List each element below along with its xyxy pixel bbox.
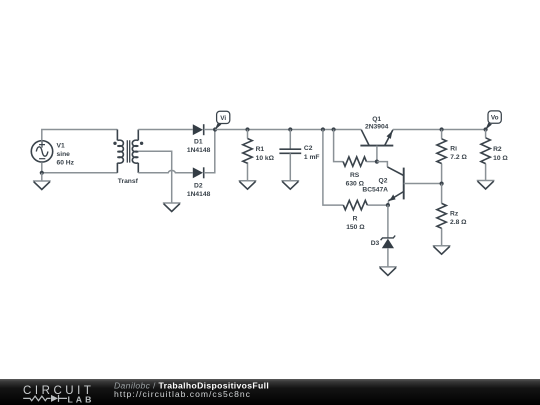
diode D1 — [193, 124, 204, 135]
svg-text:7.2 Ω: 7.2 Ω — [450, 154, 467, 161]
svg-text:RS: RS — [350, 172, 360, 179]
svg-text:D1: D1 — [194, 138, 203, 145]
ground under center tap — [163, 202, 181, 204]
wire V1 to ground — [41, 173, 43, 181]
logo diode — [51, 395, 58, 402]
transformer Transf secondary coil — [132, 130, 138, 173]
transformer Transf primary coil — [117, 130, 123, 173]
svg-text:R: R — [353, 216, 358, 223]
ground under C2 — [281, 180, 299, 182]
svg-text:2.8 Ω: 2.8 Ω — [450, 219, 467, 226]
ground under V1 — [33, 180, 51, 182]
svg-text:150 Ω: 150 Ω — [346, 224, 365, 231]
svg-text:Ri: Ri — [450, 146, 457, 153]
logo wire with resistor — [23, 396, 50, 401]
node junction R1 — [245, 127, 249, 131]
svg-text:60 Hz: 60 Hz — [57, 160, 75, 167]
resistor R2 — [485, 130, 487, 181]
node junction wire-to-R — [321, 127, 325, 131]
wire secondary top to D1 anode — [138, 129, 193, 131]
svg-text:R1: R1 — [256, 146, 265, 153]
svg-text:Transf: Transf — [118, 178, 139, 185]
svg-text:10 Ω: 10 Ω — [493, 155, 508, 162]
svg-text:sine: sine — [57, 151, 71, 158]
node flag Vi — [215, 111, 230, 130]
resistor Rz — [441, 184, 443, 246]
resistor RS — [366, 161, 377, 163]
svg-text:LAB: LAB — [68, 394, 95, 404]
wire Vi rail down to R — [323, 130, 343, 206]
svg-text:BC547A: BC547A — [362, 186, 388, 193]
svg-text:D3: D3 — [371, 240, 380, 247]
transformer primary phase dot — [113, 142, 116, 145]
wire Vi rail down to RS — [334, 130, 344, 162]
svg-text:Vo: Vo — [491, 115, 499, 122]
resistor R — [367, 204, 388, 206]
ground under R1 — [239, 180, 257, 182]
svg-text:Q2: Q2 — [379, 177, 388, 184]
diode D2 — [193, 167, 204, 178]
zener diode D3 — [381, 205, 396, 267]
footer bar — [0, 379, 540, 405]
transformer core — [127, 140, 129, 162]
ground under D3 — [379, 266, 397, 268]
svg-text:C2: C2 — [304, 145, 313, 152]
wire Q1 emitter rail to Vo — [393, 129, 486, 131]
svg-text:Rz: Rz — [450, 210, 459, 217]
svg-text:1 mF: 1 mF — [304, 154, 320, 161]
transistor Q2 — [377, 162, 442, 206]
transistor Q1 — [360, 130, 393, 162]
node junction C2 — [288, 127, 292, 131]
svg-text:10 kΩ: 10 kΩ — [256, 155, 275, 162]
wire secondary center tap — [138, 151, 171, 203]
node junction wire-to-RS — [332, 127, 336, 131]
node junction Q1 base / RS / Q2 collector — [375, 160, 379, 164]
wire V1 top to primary top — [42, 130, 118, 141]
node junction Vi — [213, 127, 217, 131]
svg-text:Vi: Vi — [220, 115, 226, 122]
svg-text:1N4148: 1N4148 — [187, 147, 211, 154]
wire secondary bottom to D2 anode with hop — [138, 170, 193, 172]
node junction Q2 emitter / R / D3 — [386, 203, 390, 207]
node junction Ri — [440, 127, 444, 131]
ground under R2 — [477, 180, 495, 182]
svg-text:R2: R2 — [493, 146, 502, 153]
wire D1 cathode to node Vi — [204, 129, 215, 131]
resistor Ri — [441, 130, 443, 184]
transformer secondary phase dot — [140, 142, 143, 145]
node junction at V1 bottom — [40, 171, 44, 175]
svg-text:1N4148: 1N4148 — [187, 191, 211, 198]
node junction Q2 base / Ri / Rz — [440, 182, 444, 186]
svg-text:http://circuitlab.com/cs5c8nc: http://circuitlab.com/cs5c8nc — [114, 389, 251, 399]
node flag Vo — [485, 111, 501, 130]
resistor R1 — [247, 130, 249, 181]
svg-text:V1: V1 — [57, 143, 65, 150]
svg-text:2N3904: 2N3904 — [365, 123, 389, 130]
svg-text:Q1: Q1 — [372, 116, 381, 123]
voltage source V1 — [31, 141, 52, 162]
ground under Rz — [433, 245, 451, 247]
svg-text:D2: D2 — [194, 183, 203, 190]
wire V1 bottom to primary bottom — [42, 162, 118, 173]
wire D2 cathode up to Vi rail — [204, 130, 215, 173]
wire Vi rail to Q1 collector — [215, 129, 361, 131]
capacitor C2 — [279, 130, 301, 181]
node junction Vo — [484, 127, 488, 131]
